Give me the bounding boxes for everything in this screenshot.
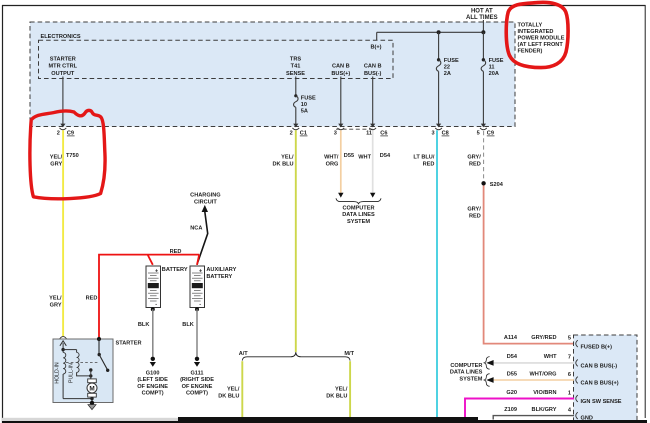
svg-text:BLK: BLK [138,322,150,328]
ground G100 [137,357,168,397]
svg-text:3: 3 [431,130,434,136]
label TOTALLY INTEGRATED POWER MODULE [518,23,565,55]
label CAN B BUS(-) [364,64,382,77]
svg-text:CAN B BUS(-): CAN B BUS(-) [581,364,618,370]
svg-text:CAN B BUS(+): CAN B BUS(+) [581,381,619,387]
svg-text:(LEFT SIDE: (LEFT SIDE [137,377,168,383]
connector pin 2 C1 [290,124,308,137]
svg-text:5: 5 [568,336,571,342]
svg-text:+: + [199,268,202,274]
svg-text:(AT LEFT FRONT: (AT LEFT FRONT [518,42,564,48]
svg-text:NCA: NCA [190,226,202,232]
label CHARGING CIRCUIT [190,193,220,206]
red annotation rectangle (left) [30,110,105,198]
svg-text:G100: G100 [146,371,160,377]
svg-text:BLK/GRY: BLK/GRY [532,407,557,413]
connector pin 2 C9 [57,124,75,137]
wire YEL/GRY T750 starter control [49,130,79,336]
svg-text:D55: D55 [344,153,354,159]
svg-text:BUS(-): BUS(-) [364,71,382,77]
svg-text:GRY: GRY [50,302,62,308]
svg-text:DATA LINES: DATA LINES [342,212,375,218]
row GND pin 4 Z109 [493,407,593,421]
svg-text:VIO/BRN: VIO/BRN [533,390,556,396]
svg-text:OF ENGINE: OF ENGINE [137,384,168,390]
svg-text:ORG: ORG [326,161,339,167]
svg-text:5: 5 [477,130,480,136]
svg-text:HOT AT: HOT AT [471,9,493,15]
svg-text:POWER MODULE: POWER MODULE [518,36,565,42]
svg-text:C9: C9 [487,130,494,136]
svg-text:11: 11 [366,130,372,136]
svg-text:M/T: M/T [344,351,354,357]
svg-text:COMPUTER: COMPUTER [450,363,482,369]
node red wire at starter [97,337,101,341]
connector pin 3 C6 [334,124,344,137]
svg-text:A114: A114 [504,335,518,341]
coil hold-in [55,352,66,383]
svg-text:G111: G111 [190,371,203,377]
battery B1 [146,266,188,308]
connector C6 pin link dashed [336,128,373,130]
wire BLK battery B2 ground [182,309,197,356]
wire fuse11 drop [482,32,484,59]
svg-text:2A: 2A [444,71,451,77]
svg-text:ALL TIMES: ALL TIMES [466,15,498,21]
svg-text:RED: RED [469,214,481,220]
node battery B2 negative post [195,307,199,311]
TIPM module box (outer, light blue dashed) [30,22,515,127]
label HOT AT ALL TIMES [466,9,498,22]
wire YEL/DK BLU TRS sense [272,130,295,352]
svg-text:Z109: Z109 [504,407,517,413]
svg-text:FENDER): FENDER) [518,49,543,55]
node motor feed junctions [89,368,92,379]
svg-text:IGN SW SENSE: IGN SW SENSE [581,399,622,405]
svg-text:+: + [155,268,158,274]
wire starter ctrl output inside module [62,77,64,125]
svg-text:COMPT): COMPT) [142,390,164,396]
svg-text:6: 6 [568,372,571,378]
svg-text:20A: 20A [489,71,499,77]
svg-text:WHT: WHT [544,354,557,360]
row CAN B BUS(+) pin 6 D55 [484,371,619,386]
wire NCA black [190,212,207,265]
wire LT BLU/RED [413,130,437,418]
svg-text:GRY/RED: GRY/RED [531,335,556,341]
arrow WHT to data lines [370,193,375,198]
svg-text:DK BLU: DK BLU [218,393,239,399]
wire GRY/RED dashed upper [467,131,483,181]
wire WHT D54 [358,130,391,193]
svg-text:3: 3 [334,130,337,136]
svg-text:CAN B: CAN B [364,64,382,70]
svg-text:10: 10 [301,102,307,108]
node junction fuse11 feed [481,30,485,34]
svg-text:G20: G20 [506,390,517,396]
svg-text:RED: RED [423,161,435,167]
svg-text:S204: S204 [490,182,504,188]
svg-text:TOTALLY: TOTALLY [518,23,543,29]
svg-text:CHARGING: CHARGING [190,193,220,199]
fuse F10 [294,94,316,114]
starter box [53,339,142,403]
wire CAN B + inside module [340,77,342,125]
svg-text:D55: D55 [507,371,517,377]
wire pull-in to motor node [77,372,91,376]
svg-text:D54: D54 [380,153,391,159]
node junction fuse22 feed [437,30,441,34]
svg-text:AUXILIARY: AUXILIARY [206,267,236,273]
svg-text:BATTERY: BATTERY [206,274,232,280]
label TRS T41 SENSE [286,56,305,76]
svg-text:COMPT): COMPT) [186,390,208,396]
connector into starter (yellow wire entry) [60,337,67,346]
svg-text:SYSTEM: SYSTEM [459,377,482,383]
row CAN B BUS(-) pin 7 D54 [484,354,617,370]
svg-text:DATA LINES: DATA LINES [450,370,483,376]
svg-text:CIRCUIT: CIRCUIT [194,199,217,205]
svg-text:2: 2 [290,130,293,136]
bottom window bar [2,417,647,423]
wire TRS fuse to pin 2 C1 [295,107,297,124]
svg-text:BUS(+): BUS(+) [331,71,350,77]
label COMPUTER DATA LINES SYSTEM (top) [342,205,375,225]
label B(+) [370,45,381,51]
battery B2 auxiliary [190,266,237,308]
svg-text:TRS: TRS [290,56,301,62]
svg-text:YEL/: YEL/ [49,295,62,301]
wire motor to ground bus [63,374,94,403]
svg-text:BLK: BLK [182,322,194,328]
svg-text:OF ENGINE: OF ENGINE [182,384,213,390]
wire fuse22 drop [438,32,440,59]
node battery B1 negative post [151,307,155,311]
svg-text:YEL/: YEL/ [227,386,240,392]
mechanical linkage dashed [66,362,98,364]
svg-text:1: 1 [568,391,571,397]
svg-text:CAN B: CAN B [332,64,350,70]
ELECTRONICS inner dashed box [39,34,394,79]
wire WHT/ORG D55 [324,130,354,193]
svg-text:GRY/: GRY/ [467,154,481,160]
red annotation circle (TIPM) [506,2,568,67]
svg-text:C8: C8 [442,130,449,136]
svg-text:RED: RED [469,161,481,167]
coil pull-in [69,350,80,383]
wire fuse11 to pin 5 C9 [482,71,484,124]
svg-text:FUSE: FUSE [489,58,504,64]
svg-text:RED: RED [86,295,98,301]
svg-text:22: 22 [444,65,450,71]
arrow WHT/ORG to data lines [338,193,343,198]
svg-text:FUSED B(+): FUSED B(+) [581,344,613,350]
svg-text:YEL/: YEL/ [281,154,294,160]
svg-text:C1: C1 [300,130,307,136]
svg-text:LT BLU/: LT BLU/ [413,154,434,160]
label COMPUTER DATA LINES SYSTEM (right) [450,363,483,383]
connector pin 5 C9 [477,124,495,137]
svg-text:YEL/: YEL/ [335,386,348,392]
svg-text:C9: C9 [67,130,74,136]
svg-text:SENSE: SENSE [286,71,305,77]
wire YEL/DK BLU M/T branch [326,361,350,418]
label STARTER MTR CTRL OUTPUT [49,56,78,76]
ground G111 [180,357,214,397]
svg-text:STARTER: STARTER [116,340,142,346]
svg-text:PULL-IN: PULL-IN [69,363,75,383]
label CAN B BUS(+) [331,64,350,77]
svg-text:A/T: A/T [239,351,249,357]
svg-text:D54: D54 [507,354,518,360]
svg-text:COMPUTER: COMPUTER [342,205,374,211]
svg-text:BATTERY: BATTERY [162,267,188,273]
svg-text:STARTER: STARTER [50,56,76,62]
right module box (dashed blue) [574,335,638,423]
row IGN SW SENSE pin 1 G20 [465,390,622,421]
wire B(+) feed bus [377,20,484,40]
connector pin 3 C8 [431,124,449,137]
wire hold-in feed [61,343,76,352]
svg-text:C6: C6 [380,130,387,136]
svg-text:2: 2 [57,130,60,136]
svg-text:(RIGHT SIDE: (RIGHT SIDE [180,377,214,383]
wire YEL/DK BLU A/T branch [218,361,242,418]
row FUSED B(+) pin 5 [504,335,612,350]
svg-text:5A: 5A [301,108,308,114]
svg-text:DK BLU: DK BLU [272,161,293,167]
svg-text:GRY/: GRY/ [467,207,481,213]
wire CAN B - inside module [372,77,374,125]
svg-text:INTEGRATED: INTEGRATED [518,29,554,35]
svg-text:YEL/: YEL/ [50,154,63,160]
svg-text:SYSTEM: SYSTEM [347,219,370,225]
svg-text:MTR CTRL: MTR CTRL [49,64,78,70]
ground starter case [88,401,96,410]
wire fuse22 to pin 3 C8 [438,71,440,124]
svg-text:WHT/ORG: WHT/ORG [529,371,556,377]
motor M starter [87,379,97,397]
svg-text:DK BLU: DK BLU [326,393,347,399]
wire BLK battery B1 ground [138,309,153,356]
svg-text:GRY: GRY [50,161,62,167]
svg-text:-: - [199,302,201,308]
wire TRS sense inside module [295,77,297,96]
svg-text:M: M [89,386,94,393]
connector pin 11 C6 [366,124,388,137]
svg-text:HOLD-IN: HOLD-IN [55,362,61,384]
svg-text:-: - [155,302,157,308]
node S204 [481,181,503,188]
wire RED battery feed [86,249,200,339]
svg-text:WHT: WHT [358,154,371,160]
svg-text:7: 7 [568,355,571,361]
svg-text:11: 11 [489,65,495,71]
fuse F11 [481,58,504,77]
brace computer data lines [336,198,381,204]
svg-text:ELECTRONICS: ELECTRONICS [41,34,81,40]
wire GRY/RED to fused B+ [467,186,574,344]
svg-text:OUTPUT: OUTPUT [51,71,75,77]
svg-text:WHT/: WHT/ [324,154,339,160]
svg-text:FUSE: FUSE [301,95,316,101]
brace A/T M/T split [242,352,350,360]
fuse F22 [436,58,459,77]
svg-text:B(+): B(+) [370,45,381,51]
svg-text:T41: T41 [291,64,301,70]
arrow to charging circuit [202,205,208,212]
svg-text:RED: RED [170,249,182,255]
svg-text:FUSE: FUSE [444,58,459,64]
switch solenoid contact [98,339,110,372]
svg-text:T750: T750 [66,153,79,159]
